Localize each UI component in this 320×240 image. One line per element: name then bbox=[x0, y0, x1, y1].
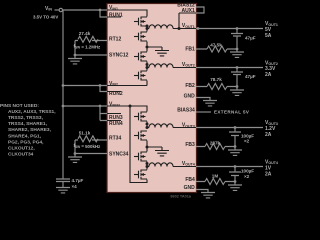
svg-text:2A: 2A bbox=[265, 171, 272, 177]
svg-text:×2: ×2 bbox=[244, 139, 250, 144]
svg-text:AUX2, AUX3, TRSS1,: AUX2, AUX3, TRSS1, bbox=[8, 109, 56, 115]
svg-text:47µF: 47µF bbox=[245, 74, 256, 79]
svg-text:RT12: RT12 bbox=[109, 36, 121, 42]
svg-text:1.2V: 1.2V bbox=[265, 126, 276, 132]
svg-text:2A: 2A bbox=[265, 132, 272, 138]
svg-text:×4: ×4 bbox=[72, 184, 78, 189]
svg-text:51.1k: 51.1k bbox=[79, 130, 91, 135]
svg-text:EXTERNAL 5V: EXTERNAL 5V bbox=[214, 110, 249, 115]
svg-text:FB4: FB4 bbox=[185, 177, 195, 183]
svg-text:100µF: 100µF bbox=[241, 169, 254, 174]
svg-text:BIAS34: BIAS34 bbox=[177, 107, 195, 113]
svg-text:AUX1: AUX1 bbox=[181, 8, 195, 14]
svg-text:RUN3: RUN3 bbox=[109, 115, 123, 121]
svg-text:PINS NOT USED:: PINS NOT USED: bbox=[0, 103, 39, 109]
svg-text:CLKOUT34: CLKOUT34 bbox=[8, 152, 34, 158]
svg-text:CLKOUT12,: CLKOUT12, bbox=[8, 146, 35, 152]
svg-text:FB1: FB1 bbox=[185, 46, 195, 52]
svg-text:3.5V TO 40V: 3.5V TO 40V bbox=[33, 15, 58, 20]
svg-text:RUN4: RUN4 bbox=[109, 121, 123, 127]
svg-text:SYNC34: SYNC34 bbox=[109, 152, 129, 158]
svg-text:78.7k: 78.7k bbox=[210, 77, 222, 82]
svg-text:TRSS2, TRSS3,: TRSS2, TRSS3, bbox=[8, 115, 44, 121]
svg-text:SYNC12: SYNC12 bbox=[109, 53, 129, 59]
svg-text:SHARE4, PG1,: SHARE4, PG1, bbox=[8, 133, 42, 139]
svg-text:GND: GND bbox=[184, 93, 196, 99]
svg-text:TRSS4, SHARE1,: TRSS4, SHARE1, bbox=[8, 121, 48, 127]
svg-text:8602 TA01a: 8602 TA01a bbox=[170, 194, 192, 198]
svg-text:SHARE2, SHARE3,: SHARE2, SHARE3, bbox=[8, 127, 52, 133]
svg-text:5A: 5A bbox=[265, 33, 272, 39]
svg-text:4.7µF: 4.7µF bbox=[72, 178, 84, 183]
svg-text:RUN2: RUN2 bbox=[109, 91, 123, 97]
svg-text:47.5k: 47.5k bbox=[210, 43, 222, 48]
svg-text:2A: 2A bbox=[265, 72, 272, 78]
svg-text:RUN1: RUN1 bbox=[109, 12, 123, 18]
svg-text:PG2, PG3, PG4,: PG2, PG3, PG4, bbox=[8, 139, 44, 145]
svg-text:27.4k: 27.4k bbox=[79, 31, 91, 36]
svg-text:FB3: FB3 bbox=[185, 142, 195, 148]
svg-text:1M: 1M bbox=[212, 173, 219, 178]
svg-text:47µF: 47µF bbox=[245, 35, 256, 40]
svg-text:RT34: RT34 bbox=[109, 135, 121, 141]
svg-text:FB2: FB2 bbox=[185, 83, 195, 89]
svg-text:287k: 287k bbox=[210, 141, 221, 146]
svg-text:GND: GND bbox=[184, 185, 196, 191]
svg-text:×2: ×2 bbox=[244, 174, 250, 179]
